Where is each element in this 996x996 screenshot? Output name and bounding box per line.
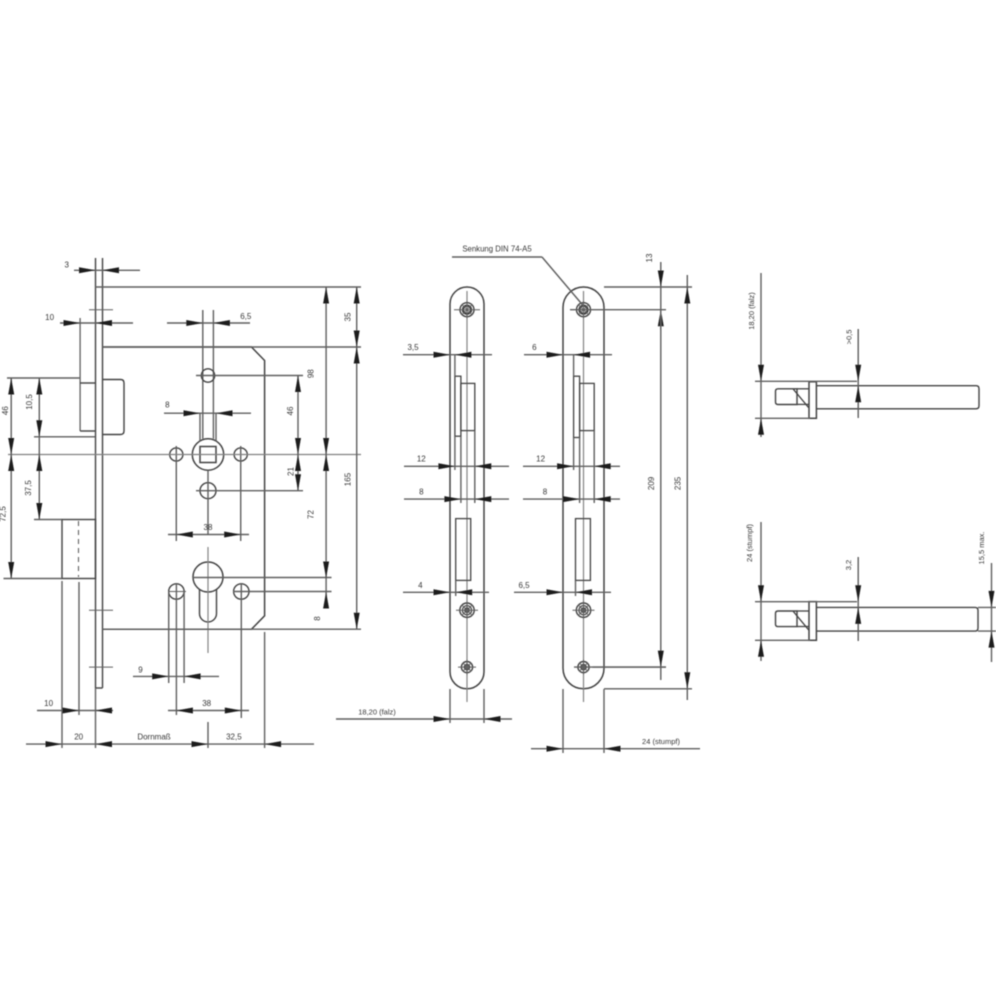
svg-text:8: 8 [419, 487, 424, 496]
stumpf plate latch cutout [574, 376, 595, 437]
dim 24 stumpf side [745, 522, 857, 661]
svg-text:13: 13 [645, 253, 654, 262]
dim 6.5 slot width [167, 312, 252, 326]
svg-text:46: 46 [286, 406, 295, 415]
svg-text:21: 21 [287, 467, 296, 476]
dim 3,2 stumpf projection [844, 557, 861, 641]
faceplate edge strip (left view) [89, 258, 113, 688]
dim >0,5 falz projection [845, 329, 862, 418]
round faceplate front view stumpf [563, 287, 604, 702]
svg-text:24 (stumpf): 24 (stumpf) [642, 737, 680, 746]
falz plate deadbolt cutout [456, 519, 471, 581]
svg-text:18,20 (falz): 18,20 (falz) [747, 292, 756, 330]
extension line body top [103, 346, 362, 348]
svg-text:35: 35 [344, 312, 353, 321]
Senkung DIN 74-A5 note with leader [452, 245, 584, 307]
svg-text:12: 12 [536, 455, 545, 464]
spindle slot lines [202, 310, 204, 439]
dim 12 stumpf latch cutout [523, 431, 620, 503]
svg-text:8: 8 [313, 616, 322, 621]
falz plate lower screw hole [458, 660, 476, 675]
svg-text:8: 8 [165, 401, 170, 410]
svg-text:8: 8 [543, 487, 548, 496]
extension line latch bottom [34, 436, 95, 438]
dim 8 square spindle [164, 401, 251, 442]
svg-text:38: 38 [202, 699, 211, 708]
svg-text:3,2: 3,2 [844, 560, 853, 570]
dim column 35 / 165 right [344, 287, 360, 629]
svg-text:4: 4 [418, 581, 423, 590]
stumpf plate lower screw hole [574, 660, 666, 675]
falz plate top screw hole [454, 301, 480, 318]
dim 8 falz latch width [404, 436, 509, 503]
svg-text:20: 20 [74, 733, 83, 742]
side view falz: faceplate section [809, 382, 816, 419]
stumpf plate deadbolt cutout [576, 519, 591, 581]
dim 12 falz latch cutout [404, 431, 509, 503]
extension line upper hole [196, 375, 303, 377]
extension line lower hole [196, 490, 303, 492]
dim 24 stumpf plate width [531, 689, 700, 753]
latch bolt [80, 318, 124, 435]
dim 10 latch projection [45, 313, 133, 326]
extension line cylinder holes right [233, 591, 332, 593]
svg-text:Dornmaß: Dornmaß [137, 733, 170, 742]
dim column 46 / 21 right [286, 376, 301, 491]
dim 18,20 falz side [747, 273, 857, 437]
dim 4 falz deadbolt offset [403, 580, 489, 596]
falz plate latch cutout [455, 376, 475, 436]
svg-text:235: 235 [674, 476, 683, 490]
svg-text:10: 10 [44, 699, 53, 708]
dim column 98 / 72 / 8 right [306, 287, 329, 621]
dim 38 cylinder hole spacing [168, 699, 249, 714]
dim 9 hole diameter [133, 665, 219, 679]
svg-text:6,5: 6,5 [518, 581, 530, 590]
svg-text:72,5: 72,5 [0, 506, 8, 522]
cylinder side holes [168, 583, 249, 718]
svg-text:15,5 max.: 15,5 max. [977, 532, 986, 565]
svg-text:10: 10 [45, 313, 54, 322]
svg-text:165: 165 [344, 472, 353, 486]
horizontal centerline through follower [8, 454, 361, 456]
side view falz: lock case bar [816, 386, 979, 409]
dim 15,5 max case thickness [977, 532, 996, 662]
dim row 20 / Dornmass / 32.5 [26, 733, 314, 748]
svg-text:32,5: 32,5 [226, 733, 242, 742]
extension line deadbolt top [34, 519, 62, 521]
lock body outline [103, 347, 265, 629]
deadbolt [62, 520, 96, 579]
extension line latch top [7, 377, 80, 379]
svg-text:>0,5: >0,5 [845, 330, 854, 345]
dim 10 bottom [37, 699, 113, 714]
svg-text:3: 3 [64, 261, 69, 270]
svg-text:98: 98 [306, 369, 315, 378]
dim 209 screw hole spacing [593, 310, 666, 680]
stumpf plate middle screw hole [573, 602, 595, 620]
falz plate middle screw hole [456, 602, 478, 620]
dim 3 faceplate thickness [64, 261, 140, 274]
svg-text:10,5: 10,5 [25, 394, 34, 410]
dim 6 stumpf lip offset [524, 343, 612, 376]
extension line faceplate top [96, 286, 362, 288]
svg-text:12: 12 [417, 455, 426, 464]
side view stumpf: faceplate section [809, 602, 816, 641]
svg-text:209: 209 [647, 476, 656, 490]
extension line body bottom [103, 628, 362, 630]
svg-text:24 (stumpf): 24 (stumpf) [745, 524, 754, 562]
dim 8 stumpf latch width [523, 438, 620, 504]
dim 18,20 falz plate width [336, 689, 512, 723]
extension line cylinder axis right [193, 577, 332, 579]
profile cylinder hole [193, 547, 223, 653]
stumpf plate top screw hole [570, 301, 666, 318]
dim column 10.5 / 37.5 left [24, 378, 42, 520]
svg-text:9: 9 [138, 665, 143, 674]
follower side holes [170, 446, 248, 541]
svg-text:3,5: 3,5 [407, 343, 419, 352]
follower hub with square spindle hole [192, 439, 223, 470]
svg-text:6,5: 6,5 [240, 312, 252, 321]
dim column 46 / 72.5 left [0, 378, 14, 579]
dim 13 top hole offset [604, 253, 692, 330]
svg-text:18,20 (falz): 18,20 (falz) [358, 708, 396, 717]
dim 38 follower hole spacing [168, 523, 249, 538]
svg-text:72: 72 [306, 510, 315, 519]
extension verticals below body [62, 581, 265, 748]
side view stumpf: lock case bar [816, 607, 978, 631]
svg-text:38: 38 [204, 523, 213, 532]
upper fixing hole [201, 369, 214, 382]
dim 3.5 falz lip offset [403, 343, 492, 376]
side view falz: latch bolt with bevel [776, 389, 809, 408]
round faceplate front view falz [450, 287, 484, 702]
lower small hole [200, 470, 216, 534]
extension line deadbolt bottom left [4, 578, 63, 580]
svg-text:Senkung DIN 74-A5: Senkung DIN 74-A5 [462, 245, 532, 254]
svg-text:46: 46 [1, 406, 10, 415]
svg-text:6: 6 [532, 343, 537, 352]
dim 235 plate length [604, 275, 692, 700]
side view stumpf: latch bolt with bevel [776, 611, 809, 630]
dim 6.5 stumpf deadbolt offset [514, 580, 611, 596]
svg-text:37,5: 37,5 [24, 480, 33, 496]
